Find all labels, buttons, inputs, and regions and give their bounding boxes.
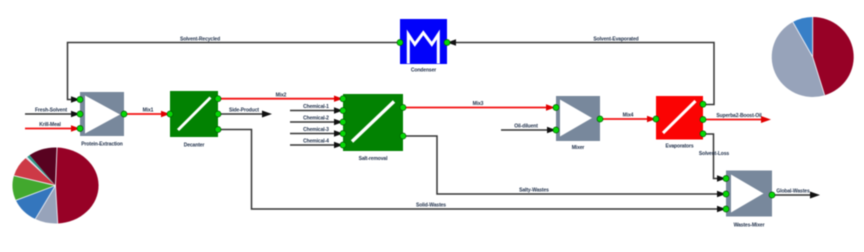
node port Condenser in [444, 40, 450, 46]
node port Evaporators out1 [700, 101, 706, 107]
chart pie1 slice green [13, 176, 56, 201]
node port Decanter out1 [215, 96, 221, 102]
node arrowhead into Protein-Extraction top port [71, 96, 80, 102]
svg-text:Oil-diluent: Oil-diluent [514, 124, 538, 130]
node port Protein-Extraction in3 [77, 126, 83, 132]
node port Decanter in [167, 111, 173, 117]
unit Wastes-Mixer [726, 171, 772, 229]
node port Condenser out [397, 40, 403, 46]
chart pie1 slice crimson [56, 148, 99, 224]
svg-text:Solvent-Evaporated: Solvent-Evaporated [593, 37, 638, 43]
node port Decanter out3 [215, 127, 221, 133]
node port Mixer out [597, 116, 603, 122]
wire Solvent-Loss (Evaporators to Wastes-Mixer) [703, 134, 720, 179]
svg-text:Chemical-1: Chemical-1 [303, 104, 329, 110]
unit Decanter [170, 91, 218, 149]
wire Chemical-4 [290, 144, 337, 146]
chart pie2 slice separators [793, 17, 825, 95]
node port Salt-removal in2 [340, 108, 346, 114]
svg-text:Krill-Meal: Krill-Meal [39, 122, 61, 128]
node port Decanter out2 [215, 111, 221, 117]
svg-text:Protein-Extraction: Protein-Extraction [81, 142, 123, 148]
node port Evaporators out2 [700, 117, 706, 123]
node port Wastes-Mixer in3 [723, 206, 729, 212]
unit Mixer [556, 96, 600, 151]
svg-text:Mix4: Mix4 [623, 113, 634, 119]
wire Fresh-Solvent [25, 113, 74, 115]
wire Chemical-3 [290, 133, 337, 135]
node port Evaporators in [653, 116, 659, 122]
node port Mixer in1 [553, 105, 559, 111]
svg-text:Superba2-Boost-Oil: Superba2-Boost-Oil [716, 113, 762, 119]
svg-text:Condenser: Condenser [411, 68, 436, 74]
chart pie1 slice red [14, 158, 56, 185]
wire Global-Wastes (out) [772, 194, 812, 196]
svg-text:Solvent-Recycled: Solvent-Recycled [180, 37, 220, 43]
node port Protein-Extraction in2 [77, 111, 83, 117]
wire Mix1 (red) [124, 113, 164, 115]
node port Protein-Extraction in1 [77, 97, 83, 103]
node port Protein-Extraction out [121, 111, 127, 117]
node port Salt-removal in1 [340, 96, 346, 102]
chart pie1 slice pale [26, 157, 56, 186]
chart pie2 slice blue [793, 17, 813, 57]
svg-text:Chemical-2: Chemical-2 [303, 116, 329, 122]
wire Chemical-1 [290, 110, 337, 112]
wire Mix4 (red) [600, 118, 650, 120]
chart pie2 slice crimson [813, 17, 854, 95]
svg-text:Solvent-Loss: Solvent-Loss [699, 151, 730, 157]
svg-text:Decanter: Decanter [184, 143, 205, 149]
wire Oil-diluent [501, 129, 550, 131]
unit Protein-Extraction (mixer block) [80, 92, 124, 148]
chart pie1 slice silver [35, 186, 57, 224]
svg-text:Chemical-3: Chemical-3 [303, 127, 329, 133]
svg-text:Side-Product: Side-Product [229, 108, 259, 114]
wire Solvent-Evaporated (Evaporators to condenser) [453, 43, 714, 105]
wire Chemical-2 [290, 121, 337, 123]
node port Wastes-Mixer out [769, 192, 775, 198]
svg-text:Salt-removal: Salt-removal [359, 156, 389, 162]
chart pie2 slice silver [772, 22, 825, 97]
svg-text:Solid-Wastes: Solid-Wastes [416, 203, 446, 209]
node port Salt-removal out2 [400, 133, 406, 139]
chart pie1 slice blue [16, 186, 56, 220]
wire Superba2-Boost-Oil (red, product out) [703, 119, 763, 121]
chart pie1 slice separators [14, 148, 58, 224]
chart pie1 slice maroon [30, 147, 57, 185]
wire Mix3 (red) [403, 107, 549, 109]
node port Salt-removal out1 [400, 105, 406, 111]
wire Solid-Wastes (Decanter to Wastes-Mixer) [218, 130, 720, 210]
node port Wastes-Mixer in1 [723, 176, 729, 182]
svg-text:Mix1: Mix1 [143, 108, 154, 114]
wire Side-Product [218, 113, 264, 115]
svg-text:Mix3: Mix3 [473, 101, 484, 107]
node port Evaporators out3 [700, 131, 706, 137]
svg-text:Chemical-4: Chemical-4 [303, 139, 329, 145]
svg-text:Wastes-Mixer: Wastes-Mixer [734, 223, 765, 229]
svg-text:Mix2: Mix2 [276, 93, 287, 99]
unit Evaporators [656, 96, 703, 150]
svg-text:Global-Wastes: Global-Wastes [776, 189, 810, 195]
wire Solvent-Recycled (condenser to Protein-Extraction) [68, 43, 401, 100]
node port Salt-removal in4 [340, 131, 346, 137]
unit Condenser [400, 19, 447, 74]
svg-text:Fresh-Solvent: Fresh-Solvent [35, 108, 67, 114]
unit Salt-removal [343, 94, 403, 162]
wire Krill-Meal (red) [25, 128, 74, 130]
svg-text:Mixer: Mixer [572, 145, 585, 151]
node port Salt-removal in5 [340, 142, 346, 148]
wire Mix2 (red) [218, 98, 337, 100]
node port Salt-removal in3 [340, 119, 346, 125]
svg-text:Evaporators: Evaporators [665, 144, 693, 150]
svg-text:Salty-Wastes: Salty-Wastes [519, 188, 549, 194]
wire Salty-Wastes (Salt-removal to Wastes-Mixer) [403, 136, 720, 194]
node port Mixer in2 [553, 127, 559, 133]
chart pie1 slice teal [27, 155, 55, 185]
node arrowhead into condenser right port [447, 39, 456, 45]
node port Wastes-Mixer in2 [723, 191, 729, 197]
